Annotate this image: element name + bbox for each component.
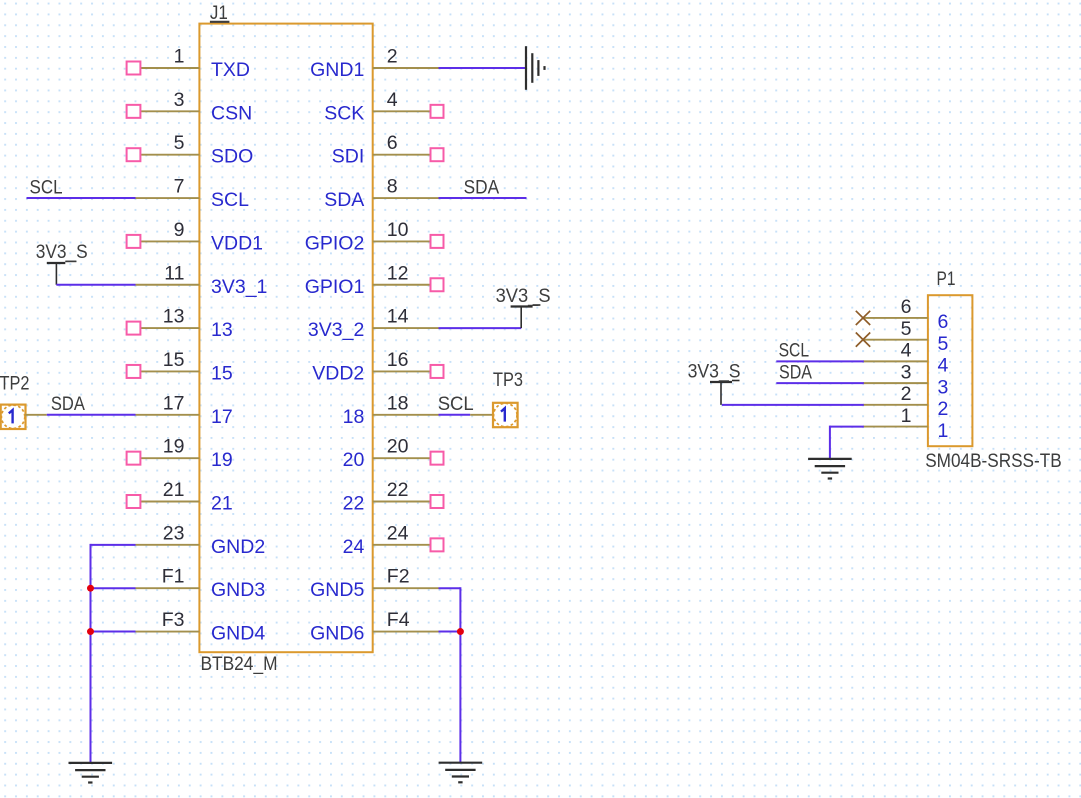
J1 pin 12 number: [387, 262, 409, 284]
power port 3V3_S (J1 pin 14): [511, 305, 541, 328]
designator TP3: [493, 369, 523, 391]
svg-text:F4: F4: [387, 609, 410, 631]
svg-text:1: 1: [901, 405, 912, 427]
svg-text:10: 10: [387, 219, 409, 241]
svg-text:13: 13: [163, 306, 185, 328]
J1 pin name SDO: [211, 146, 253, 168]
wire net SDA (P1 pin 3): [776, 382, 864, 384]
P1 pin name 1: [938, 420, 949, 442]
J1 pin 20 number: [387, 436, 409, 458]
svg-text:7: 7: [174, 176, 185, 198]
net label SDA (P1): [779, 362, 812, 384]
J1 pin 15 lead: [136, 370, 200, 372]
J1 pin 10 number: [387, 219, 409, 241]
J1 pin name VDD1: [211, 232, 263, 254]
J1 pin 14 lead: [373, 327, 439, 329]
svg-text:2: 2: [938, 398, 949, 420]
wire net SCL (P1 pin 4): [776, 360, 864, 362]
svg-text:5: 5: [901, 318, 912, 340]
J1 pin 15 number: [163, 349, 185, 371]
svg-text:F1: F1: [162, 566, 185, 588]
J1 pin 7 lead: [136, 197, 200, 199]
wire net GND (P1 pin 1) vertical: [829, 426, 831, 459]
junction F3/GND: [87, 628, 94, 635]
net label SDA (right): [464, 176, 500, 198]
svg-text:6: 6: [901, 296, 912, 318]
J1 pin 9 lead: [136, 240, 200, 242]
J1 pin 5 lead: [136, 154, 200, 156]
J1 pin 6 number: [387, 132, 398, 154]
P1 pin name 5: [938, 333, 949, 355]
J1 pin 17 lead: [136, 414, 200, 416]
P1 pin name 2: [938, 398, 949, 420]
svg-text:GPIO2: GPIO2: [305, 232, 365, 254]
J1 pin name SCL: [211, 189, 249, 211]
net label 3V3_S (left): [36, 241, 88, 263]
J1 pin F2 number: [387, 566, 410, 588]
J1 pin 18 number: [387, 392, 409, 414]
svg-text:20: 20: [343, 449, 365, 471]
wire net GND (J1 pin 2): [439, 67, 527, 69]
J1 pin name 18: [343, 406, 365, 428]
svg-text:P1: P1: [937, 268, 956, 290]
net label SCL: [30, 176, 63, 198]
svg-text:23: 23: [163, 522, 185, 544]
svg-text:15: 15: [211, 362, 233, 384]
P1 pin name 3: [938, 376, 949, 398]
J1 pin 7 number: [174, 176, 185, 198]
svg-text:6: 6: [938, 311, 949, 333]
J1 pin name SCK: [324, 102, 364, 124]
junction F1/GND: [87, 585, 94, 592]
J1 pin 22 number: [387, 479, 409, 501]
svg-text:GND6: GND6: [310, 623, 364, 645]
svg-text:21: 21: [163, 479, 185, 501]
J1 pin name SDI: [332, 146, 365, 168]
J1 pin name 15: [211, 362, 233, 384]
wire GND3 (J1 pin F1): [91, 587, 136, 589]
J1 pin 23 number: [163, 522, 185, 544]
no-connect marker J1 pin 13: [127, 322, 141, 335]
wire GND6 (J1 pin F4): [439, 631, 461, 633]
test point TP3: [493, 403, 518, 427]
J1 pin name SDA: [324, 189, 364, 211]
J1 pin 12 lead: [373, 284, 439, 286]
J1 pin 23 lead: [136, 544, 200, 546]
svg-text:SCK: SCK: [324, 102, 364, 124]
designator J1: [210, 2, 230, 24]
no-connect marker J1 pin 19: [127, 452, 141, 465]
svg-text:21: 21: [211, 493, 233, 515]
P1 pin name 6: [938, 311, 949, 333]
ground symbol (left): [69, 763, 113, 783]
svg-text:GND3: GND3: [211, 579, 265, 601]
svg-text:3V3_1: 3V3_1: [211, 276, 267, 298]
svg-text:SCL: SCL: [211, 189, 249, 211]
svg-text:SDA: SDA: [324, 189, 364, 211]
svg-text:15: 15: [163, 349, 185, 371]
svg-text:17: 17: [163, 392, 185, 414]
J1 pin 2 number: [387, 46, 398, 68]
J1 pin name GND5: [310, 579, 364, 601]
wire GND vertical (left): [90, 544, 92, 763]
wire net 3V3_S (P1 pin 2): [722, 404, 864, 406]
net label 3V3_S (right): [496, 285, 551, 307]
J1 pin 4 lead: [373, 110, 439, 112]
svg-text:TP2: TP2: [0, 373, 30, 395]
TP2 pin lead: [25, 414, 47, 416]
svg-text:F2: F2: [387, 566, 410, 588]
P1 pin 1 lead: [863, 426, 928, 428]
junction F4/GND: [457, 628, 464, 635]
svg-text:22: 22: [343, 493, 365, 515]
J1 pin F3 lead: [136, 631, 200, 633]
J1 pin name 17: [211, 406, 233, 428]
svg-text:9: 9: [174, 219, 185, 241]
J1 pin 3 number: [174, 89, 185, 111]
no-connect marker J1 pin 5: [127, 148, 141, 161]
J1 pin 19 number: [163, 436, 185, 458]
svg-text:14: 14: [387, 306, 409, 328]
J1 pin 20 lead: [373, 457, 439, 459]
J1 pin 10 lead: [373, 240, 439, 242]
J1 pin 19 lead: [136, 457, 200, 459]
svg-text:1: 1: [174, 46, 185, 68]
wire GND vertical (right): [459, 587, 461, 763]
svg-text:8: 8: [387, 176, 398, 198]
no-connect marker J1 pin 4: [431, 105, 444, 118]
J1 pin F3 number: [162, 609, 185, 631]
power port 3V3_S (J1 pin 11): [47, 261, 77, 284]
J1 pin name 13: [211, 319, 233, 341]
no-ERC cross P1 pin 6: [856, 311, 870, 325]
TP3 pin lead: [470, 414, 493, 416]
svg-text:4: 4: [901, 340, 912, 362]
J1 pin 4 number: [387, 89, 398, 111]
svg-text:3: 3: [174, 89, 185, 111]
svg-text:3: 3: [938, 376, 949, 398]
J1 pin name GND3: [211, 579, 265, 601]
wire GND5 (J1 pin F2): [439, 587, 461, 589]
svg-text:SDI: SDI: [332, 146, 365, 168]
value label BTB24_M: [201, 653, 278, 675]
svg-text:GND5: GND5: [310, 579, 364, 601]
svg-text:12: 12: [387, 262, 409, 284]
svg-text:19: 19: [211, 449, 233, 471]
svg-text:SDA: SDA: [464, 176, 500, 198]
svg-text:6: 6: [387, 132, 398, 154]
connector P1 body: [928, 295, 973, 446]
wire net 3V3_S (J1 pin 14): [439, 327, 522, 329]
svg-text:5: 5: [938, 333, 949, 355]
J1 pin name 3V3_1: [211, 276, 267, 298]
svg-text:SCL: SCL: [438, 393, 474, 415]
svg-text:4: 4: [938, 355, 949, 377]
no-connect marker J1 pin 12: [431, 278, 444, 291]
P1 pin 6 number: [901, 296, 912, 318]
svg-text:18: 18: [343, 406, 365, 428]
svg-text:GPIO1: GPIO1: [305, 276, 365, 298]
svg-text:19: 19: [163, 436, 185, 458]
svg-text:18: 18: [387, 392, 409, 414]
svg-text:4: 4: [387, 89, 398, 111]
svg-text:13: 13: [211, 319, 233, 341]
svg-text:17: 17: [211, 406, 233, 428]
svg-text:2: 2: [901, 383, 912, 405]
no-connect marker J1 pin 16: [431, 365, 444, 378]
J1 pin name VDD2: [312, 362, 364, 384]
wire net SCL (J1 pin 7): [27, 197, 136, 199]
J1 pin name GND2: [211, 536, 265, 558]
J1 pin name GND6: [310, 623, 364, 645]
J1 pin 21 lead: [136, 501, 200, 503]
J1 pin 24 number: [387, 522, 409, 544]
no-connect marker J1 pin 3: [127, 105, 141, 118]
svg-text:20: 20: [387, 436, 409, 458]
J1 pin name 19: [211, 449, 233, 471]
J1 pin 16 number: [387, 349, 409, 371]
svg-text:BTB24_M: BTB24_M: [201, 653, 278, 675]
net label SDA (left): [51, 393, 85, 415]
no-connect marker J1 pin 24: [431, 538, 444, 551]
value label SM04B-SRSS-TB: [925, 450, 1061, 472]
wire net SCL (J1 pin 18): [439, 414, 471, 416]
svg-text:SDA: SDA: [779, 362, 812, 384]
J1 pin name 3V3_2: [308, 319, 364, 341]
J1 pin F2 lead: [373, 587, 439, 589]
J1 pin F1 lead: [136, 587, 200, 589]
no-connect marker J1 pin 9: [127, 235, 141, 248]
svg-text:F3: F3: [162, 609, 185, 631]
J1 pin 14 number: [387, 306, 409, 328]
ground symbol (P1): [808, 459, 852, 479]
P1 pin 3 lead: [863, 382, 928, 384]
svg-text:VDD1: VDD1: [211, 232, 263, 254]
svg-text:GND4: GND4: [211, 623, 265, 645]
svg-text:SCL: SCL: [30, 176, 63, 198]
P1 pin 4 number: [901, 340, 912, 362]
P1 pin 3 number: [901, 361, 912, 383]
J1 pin F4 number: [387, 609, 410, 631]
P1 pin 5 lead: [863, 339, 928, 341]
svg-text:5: 5: [174, 132, 185, 154]
no-connect marker J1 pin 21: [127, 495, 141, 508]
J1 pin 9 number: [174, 219, 185, 241]
P1 pin 5 number: [901, 318, 912, 340]
designator P1: [937, 268, 956, 290]
P1 pin 2 lead: [863, 404, 928, 406]
power port 3V3_S (P1): [710, 381, 740, 405]
wire GND4 (J1 pin F3): [91, 631, 136, 633]
no-ERC cross P1 pin 5: [856, 333, 870, 347]
svg-text:3V3_2: 3V3_2: [308, 319, 364, 341]
P1 pin 4 lead: [863, 360, 928, 362]
net label 3V3_S (P1): [688, 361, 741, 383]
P1 pin 1 number: [901, 405, 912, 427]
J1 pin name CSN: [211, 102, 252, 124]
J1 pin 22 lead: [373, 501, 439, 503]
wire net SDA (J1 pin 8): [439, 197, 527, 199]
P1 pin 2 number: [901, 383, 912, 405]
svg-text:SM04B-SRSS-TB: SM04B-SRSS-TB: [925, 450, 1061, 472]
ground symbol (pin 2, rotated): [526, 46, 545, 90]
svg-text:3V3_S: 3V3_S: [688, 361, 741, 383]
no-connect marker J1 pin 1: [127, 62, 141, 75]
J1 pin 16 lead: [373, 370, 439, 372]
J1 pin name 24: [343, 536, 365, 558]
J1 pin 1 number: [174, 46, 185, 68]
J1 pin 24 lead: [373, 544, 439, 546]
svg-text:SDO: SDO: [211, 146, 253, 168]
J1 pin name GPIO1: [305, 276, 365, 298]
wire net GND (P1 pin 1) horizontal: [830, 426, 864, 428]
svg-text:1: 1: [938, 420, 949, 442]
J1 pin 13 lead: [136, 327, 200, 329]
wire net 3V3_S (J1 pin 11): [56, 284, 135, 286]
test point TP2: [1, 405, 26, 429]
net label SCL (P1): [779, 339, 810, 361]
wire net SDA (J1 pin 17): [47, 414, 136, 416]
svg-text:2: 2: [387, 46, 398, 68]
J1 pin 8 lead: [373, 197, 439, 199]
ground symbol (right): [439, 763, 483, 783]
designator TP2: [0, 373, 30, 395]
J1 pin name TXD: [211, 59, 250, 81]
svg-text:SCL: SCL: [779, 339, 810, 361]
J1 pin 3 lead: [136, 110, 200, 112]
J1 pin 17 number: [163, 392, 185, 414]
svg-text:3V3_S: 3V3_S: [36, 241, 88, 263]
net label SCL (right): [438, 393, 474, 415]
svg-text:24: 24: [343, 536, 365, 558]
J1 pin 21 number: [163, 479, 185, 501]
J1 pin 11 lead: [136, 284, 200, 286]
J1 pin name 20: [343, 449, 365, 471]
no-connect marker J1 pin 15: [127, 365, 141, 378]
J1 pin name GND4: [211, 623, 265, 645]
no-connect marker J1 pin 22: [431, 495, 444, 508]
J1 pin 5 number: [174, 132, 185, 154]
svg-text:GND1: GND1: [310, 59, 364, 81]
svg-text:3V3_S: 3V3_S: [496, 285, 551, 307]
J1 pin F1 number: [162, 566, 185, 588]
J1 pin 2 lead: [373, 67, 439, 69]
J1 pin 6 lead: [373, 154, 439, 156]
P1 pin 6 lead: [863, 317, 928, 319]
J1 pin name 22: [343, 493, 365, 515]
J1 pin F4 lead: [373, 631, 439, 633]
svg-text:16: 16: [387, 349, 409, 371]
svg-text:SDA: SDA: [51, 393, 85, 415]
svg-text:GND2: GND2: [211, 536, 265, 558]
J1 pin 1 lead: [136, 67, 200, 69]
J1 pin 18 lead: [373, 414, 439, 416]
wire GND2 (J1 pin 23): [91, 544, 136, 546]
connector J1 body: [199, 24, 372, 653]
P1 pin name 4: [938, 355, 949, 377]
svg-text:24: 24: [387, 522, 409, 544]
J1 pin name 21: [211, 493, 233, 515]
J1 pin 8 number: [387, 176, 398, 198]
svg-text:TP3: TP3: [493, 369, 523, 391]
svg-text:VDD2: VDD2: [312, 362, 364, 384]
svg-text:22: 22: [387, 479, 409, 501]
svg-text:CSN: CSN: [211, 102, 252, 124]
no-connect marker J1 pin 6: [431, 148, 444, 161]
J1 pin 11 number: [164, 262, 184, 284]
J1 pin name GND1: [310, 59, 364, 81]
svg-text:TXD: TXD: [211, 59, 250, 81]
svg-text:11: 11: [164, 262, 184, 284]
svg-text:3: 3: [901, 361, 912, 383]
no-connect marker J1 pin 20: [431, 452, 444, 465]
no-connect marker J1 pin 10: [431, 235, 444, 248]
J1 pin 13 number: [163, 306, 185, 328]
J1 pin name GPIO2: [305, 232, 365, 254]
